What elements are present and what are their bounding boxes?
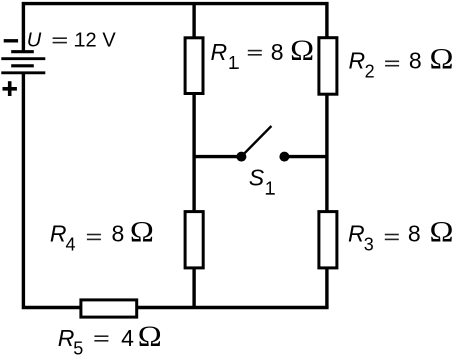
svg-text:R: R <box>211 39 228 65</box>
svg-text:R: R <box>58 325 75 351</box>
svg-text:V: V <box>102 29 116 51</box>
svg-text:Ω: Ω <box>430 42 454 75</box>
svg-text:S: S <box>249 165 265 191</box>
svg-text:1: 1 <box>265 179 275 199</box>
svg-text:8: 8 <box>409 47 422 73</box>
svg-text:5: 5 <box>73 339 83 359</box>
svg-text:2: 2 <box>365 61 375 81</box>
svg-text:1: 1 <box>228 53 238 73</box>
svg-text:Ω: Ω <box>138 320 162 353</box>
svg-text:8: 8 <box>271 39 284 65</box>
svg-text:4: 4 <box>66 234 76 254</box>
svg-text:4: 4 <box>121 325 134 351</box>
svg-text:U: U <box>27 29 42 51</box>
svg-text:R: R <box>349 47 366 73</box>
svg-text:8: 8 <box>112 221 125 247</box>
svg-text:Ω: Ω <box>130 216 154 249</box>
svg-text:R: R <box>50 221 67 247</box>
svg-text:8: 8 <box>408 221 421 247</box>
svg-text:Ω: Ω <box>290 34 314 67</box>
svg-text:R: R <box>348 221 365 247</box>
svg-text:12: 12 <box>74 29 96 51</box>
svg-text:Ω: Ω <box>430 216 454 249</box>
svg-text:3: 3 <box>364 234 374 254</box>
